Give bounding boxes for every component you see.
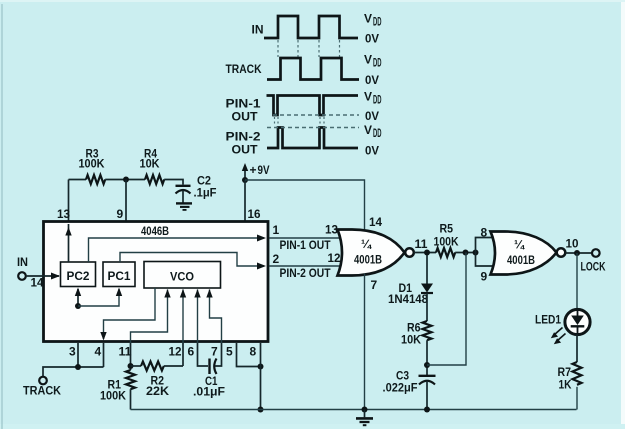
wire VCO out to pin 4 bbox=[100, 288, 155, 341]
resistor R1 bbox=[100, 370, 135, 403]
svg-text:10: 10 bbox=[566, 237, 579, 251]
resistor R7 bbox=[558, 362, 582, 392]
svg-text:¼: ¼ bbox=[361, 237, 372, 251]
wire pin 3 below box bbox=[77, 343, 79, 367]
svg-text:PC2: PC2 bbox=[67, 269, 90, 283]
wire pin6 stub bbox=[198, 343, 209, 366]
svg-text:100K: 100K bbox=[79, 157, 105, 171]
diode D1 bbox=[388, 255, 433, 306]
svg-text:3: 3 bbox=[69, 345, 76, 359]
label VDD row4 bbox=[364, 123, 382, 140]
wire feedback C3 node to gate2 input node bbox=[427, 253, 466, 366]
wire gate1 pin7 to ground bbox=[365, 274, 378, 410]
wire top bias rail bbox=[69, 179, 87, 181]
svg-text:+: + bbox=[250, 163, 257, 177]
junction node PC2 input bbox=[75, 303, 81, 309]
junction node R1 R2 bbox=[128, 363, 134, 369]
junction node gate2 input bbox=[473, 250, 479, 256]
dashed 0V line PIN-1 bbox=[273, 114, 359, 116]
wire pin 16 bbox=[245, 180, 261, 221]
svg-text:TRACK: TRACK bbox=[23, 384, 61, 398]
wire R4 to C2 bbox=[164, 180, 183, 185]
waveform PIN-1 trace bbox=[267, 96, 359, 116]
junction node pin9 bbox=[123, 177, 129, 183]
capacitor C3 bbox=[383, 369, 436, 395]
resistor R5 bbox=[434, 222, 459, 258]
label VDD row1 bbox=[364, 12, 382, 29]
svg-text:9: 9 bbox=[117, 207, 124, 221]
input IN terminal bbox=[17, 255, 28, 280]
svg-text:8: 8 bbox=[250, 345, 257, 359]
wire pin 13 bbox=[57, 180, 70, 222]
svg-text:V: V bbox=[364, 123, 372, 137]
wire pin 8 to ground rail bbox=[260, 343, 262, 410]
svg-text:DD: DD bbox=[373, 15, 382, 29]
wire pin7 to VCO input bbox=[206, 289, 221, 343]
IC U1 4046B box bbox=[44, 222, 269, 342]
wire R1 to ground rail bbox=[130, 389, 132, 409]
svg-text:0V: 0V bbox=[365, 32, 379, 46]
junction node R6 C3 bbox=[424, 362, 430, 368]
wire R5 to gate2 inputs bbox=[455, 252, 475, 254]
svg-text:14: 14 bbox=[31, 276, 44, 290]
wire PC2 to pin 13 internal bbox=[65, 224, 71, 262]
wire PIN-1 OUT bbox=[269, 223, 344, 253]
svg-text:R5: R5 bbox=[440, 222, 454, 236]
junction node gate1 pin7 rail bbox=[362, 407, 368, 413]
svg-text:1K: 1K bbox=[559, 378, 572, 392]
wire PC2 to pin 1 internal bbox=[89, 235, 267, 263]
svg-text:IN: IN bbox=[17, 255, 28, 269]
resistor R2 bbox=[131, 362, 184, 399]
wire R7 to rail bbox=[576, 387, 578, 410]
svg-text:9: 9 bbox=[481, 270, 488, 284]
wire pin5 to pin8 bbox=[237, 343, 261, 367]
svg-text:4: 4 bbox=[95, 345, 102, 359]
ground symbol bbox=[356, 410, 373, 426]
svg-text:¼: ¼ bbox=[514, 238, 525, 252]
svg-text:VCO: VCO bbox=[170, 270, 194, 284]
svg-text:16: 16 bbox=[248, 207, 261, 221]
junction node LED bbox=[574, 250, 580, 256]
label VDD row3 bbox=[364, 90, 382, 107]
svg-text:V: V bbox=[364, 90, 372, 104]
svg-text:PIN-2: PIN-2 bbox=[226, 130, 261, 144]
svg-text:LOCK: LOCK bbox=[581, 260, 606, 274]
NOR gate U2b 4001B bbox=[491, 232, 566, 275]
svg-text:OUT: OUT bbox=[232, 143, 259, 157]
block VCO bbox=[144, 262, 221, 289]
svg-text:4046B: 4046B bbox=[141, 224, 169, 238]
svg-text:0V: 0V bbox=[365, 73, 379, 87]
wire node to PC1 input bbox=[78, 288, 122, 307]
wire pin 9 bbox=[117, 180, 127, 222]
waveform IN trace bbox=[264, 16, 358, 38]
svg-text:IN: IN bbox=[252, 23, 264, 37]
dashed VDD line PIN-2 bbox=[267, 127, 359, 129]
svg-text:LED1: LED1 bbox=[535, 313, 561, 327]
svg-text:.022μF: .022μF bbox=[383, 381, 418, 395]
wire gate2 input tie bbox=[476, 226, 495, 284]
wire pin7 stub bbox=[215, 343, 222, 366]
svg-text:PIN-1 OUT: PIN-1 OUT bbox=[280, 238, 332, 252]
output LOCK terminal bbox=[581, 249, 606, 273]
svg-text:5: 5 bbox=[226, 345, 233, 359]
junction node pin3 track bbox=[75, 364, 81, 370]
LED emission arrows bbox=[551, 328, 566, 345]
waveform PIN-2 trace bbox=[267, 128, 358, 149]
dashed verticals between IN and TRACK bbox=[278, 40, 340, 57]
svg-text:1N4148: 1N4148 bbox=[388, 292, 428, 306]
svg-text:PC1: PC1 bbox=[108, 269, 131, 283]
LED1 bbox=[535, 309, 590, 334]
svg-text:100K: 100K bbox=[100, 389, 126, 403]
wire PIN-2 OUT bbox=[269, 251, 344, 280]
block PC2 bbox=[61, 262, 96, 287]
svg-text:V: V bbox=[364, 53, 372, 67]
svg-text:4001B: 4001B bbox=[507, 253, 535, 267]
wire node to LED1 bbox=[576, 253, 578, 310]
wire gate2 output to LOCK bbox=[566, 237, 592, 254]
svg-text:DD: DD bbox=[373, 126, 382, 140]
svg-text:7: 7 bbox=[211, 345, 218, 359]
svg-text:4001B: 4001B bbox=[354, 253, 382, 267]
svg-text:11: 11 bbox=[415, 237, 428, 251]
resistor R3 bbox=[79, 147, 106, 185]
wire TRACK to pins 3,4 bbox=[43, 367, 104, 377]
svg-text:2: 2 bbox=[273, 252, 280, 266]
svg-text:V: V bbox=[364, 12, 372, 26]
wire gate1 output bbox=[414, 237, 436, 253]
wire pin 4 below box bbox=[103, 343, 105, 367]
wire D1 to R6 bbox=[426, 293, 428, 321]
junction node feedback bbox=[463, 250, 469, 256]
svg-text:13: 13 bbox=[57, 207, 70, 221]
wire R6 to C3 bbox=[426, 340, 428, 375]
wire pin11 to VCO input bbox=[131, 289, 171, 343]
svg-text:DD: DD bbox=[373, 56, 382, 70]
svg-text:0V: 0V bbox=[365, 109, 379, 123]
svg-text:100K: 100K bbox=[434, 235, 459, 249]
NOR gate U2a 4001B bbox=[338, 230, 414, 276]
dashed verticals between PIN-1 and PIN-2 bbox=[275, 117, 325, 126]
+9V supply arrow bbox=[242, 163, 270, 180]
svg-text:8: 8 bbox=[481, 226, 488, 240]
svg-text:7: 7 bbox=[371, 278, 378, 292]
svg-text:6: 6 bbox=[188, 345, 195, 359]
svg-text:12: 12 bbox=[169, 345, 182, 359]
resistor R4 bbox=[140, 147, 165, 185]
svg-text:14: 14 bbox=[369, 215, 382, 229]
svg-text:10K: 10K bbox=[140, 157, 160, 171]
wire LED to R7 bbox=[576, 335, 578, 363]
junction node C3 rail bbox=[424, 407, 430, 413]
waveform label PIN-1 OUT bbox=[226, 97, 261, 124]
svg-text:DD: DD bbox=[373, 93, 382, 107]
input TRACK terminal bbox=[23, 377, 61, 398]
ground rail bbox=[131, 409, 577, 411]
label VDD row2 bbox=[364, 53, 382, 70]
waveform label PIN-2 OUT bbox=[226, 130, 261, 157]
wire pin 11 below box bbox=[130, 343, 132, 370]
junction node pin8 rail bbox=[258, 407, 264, 413]
svg-text:10K: 10K bbox=[401, 333, 421, 347]
wire IN to PC2 pin14 bbox=[26, 273, 60, 290]
wire C3 to rail bbox=[426, 381, 428, 410]
capacitor C2 bbox=[176, 174, 217, 200]
junction node D1 bbox=[424, 250, 430, 256]
svg-text:.1μF: .1μF bbox=[194, 186, 217, 200]
svg-text:12: 12 bbox=[328, 251, 341, 265]
svg-text:PIN-1: PIN-1 bbox=[226, 97, 261, 111]
ground below C2 bbox=[176, 191, 192, 210]
wire pin12 to VCO input bbox=[180, 289, 186, 343]
wire PC1 to pin 2 internal bbox=[120, 253, 266, 270]
capacitor C1 bbox=[193, 359, 225, 399]
svg-text:OUT: OUT bbox=[232, 110, 259, 124]
svg-text:.01μF: .01μF bbox=[193, 385, 225, 399]
junction node pin8 bbox=[258, 364, 264, 370]
wire R3 to R4 bbox=[105, 179, 145, 181]
svg-text:PIN-2 OUT: PIN-2 OUT bbox=[280, 266, 332, 280]
wire pin6 to VCO input bbox=[194, 289, 200, 343]
svg-text:9V: 9V bbox=[258, 163, 270, 177]
resistor R6 bbox=[401, 321, 432, 347]
svg-text:TRACK: TRACK bbox=[226, 62, 262, 76]
wire pin3 to PC2 input bbox=[75, 288, 81, 307]
svg-text:22K: 22K bbox=[146, 384, 169, 398]
block PC1 bbox=[103, 262, 135, 287]
wire pin12 stub bbox=[182, 343, 184, 366]
wire +9V rail to gate1 pin14 bbox=[245, 180, 365, 232]
svg-text:1: 1 bbox=[273, 223, 280, 237]
waveform TRACK trace bbox=[267, 58, 359, 80]
svg-text:0V: 0V bbox=[365, 144, 379, 158]
junction node +9V bbox=[242, 177, 248, 183]
